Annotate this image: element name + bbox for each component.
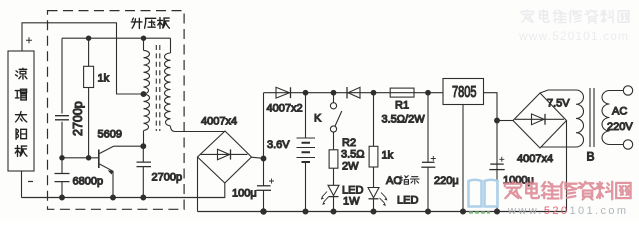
- svg-text:www.520101.com: www.520101.com: [518, 29, 629, 43]
- resistor R1 body: [390, 88, 414, 97]
- node 220u top dot: [426, 90, 431, 95]
- capacitor C4 100u plates: [257, 185, 271, 187]
- wire bridge2 right corner to ground: [566, 121, 568, 212]
- wire base: [62, 157, 99, 159]
- svg-text:4007x2: 4007x2: [267, 103, 303, 115]
- plus terminal label: [26, 37, 32, 43]
- node switch top dot: [331, 90, 336, 95]
- switch K: [333, 93, 335, 103]
- AC terminal top circle: [623, 86, 632, 95]
- svg-text:3.6V: 3.6V: [267, 139, 290, 151]
- svg-text:LED: LED: [342, 184, 363, 196]
- transformer T1 secondary winding: [164, 38, 225, 131]
- svg-text:5609: 5609: [98, 129, 122, 141]
- LED1 lamp: [328, 185, 339, 195]
- resistor R2 body: [329, 150, 338, 168]
- svg-text:3.5Ω/2W: 3.5Ω/2W: [382, 114, 426, 126]
- svg-text:R1: R1: [395, 100, 409, 112]
- wire bridge right corner to 100u node: [252, 157, 264, 158]
- node collector junction dot: [141, 144, 146, 149]
- node base junction dot: [60, 156, 64, 160]
- bridge D1 internal diode: [201, 153, 248, 155]
- svg-text:2700p: 2700p: [152, 172, 183, 184]
- capacitor C2 6800p plates: [55, 174, 70, 182]
- wire bridge bottom corner to boost rail: [224, 183, 226, 198]
- regulator U1 7805 box: [443, 79, 484, 105]
- transformer T1 primary upper winding: [144, 38, 150, 94]
- node 100u bottom dot: [261, 209, 266, 214]
- resistor R3 1k body: [373, 93, 375, 147]
- svg-text:1k: 1k: [382, 150, 394, 162]
- wire panel plus to boost top: [22, 23, 144, 94]
- capacitor C4 plus sign: [269, 179, 274, 184]
- wire panel minus to boost rail: [21, 171, 23, 197]
- boost board label 升压板: [131, 18, 169, 29]
- LED2 emission arrows: [380, 193, 387, 204]
- svg-text:2700p: 2700p: [71, 101, 85, 136]
- minus terminal label: [28, 181, 33, 183]
- capacitor C1 2700p plates: [55, 116, 69, 120]
- dashed boost board border: [48, 11, 185, 210]
- svg-text:LED: LED: [397, 195, 418, 207]
- AC terminal bottom circle: [623, 140, 632, 149]
- node winding top dot: [141, 36, 145, 40]
- wire to bridge2 left corner: [497, 120, 513, 122]
- transformer T1 core dashed lines: [156, 45, 160, 131]
- collector wire: [114, 145, 144, 147]
- diode D3 (charge path, pointing left): [346, 87, 348, 98]
- LED1 emission arrows: [322, 192, 329, 203]
- svg-text:1k: 1k: [98, 73, 110, 85]
- wire dc riser: [263, 93, 265, 212]
- transformer T1 primary lower winding: [144, 94, 150, 146]
- wire base node down: [61, 158, 63, 198]
- bottom-right watermark book icon: [469, 180, 498, 207]
- node 1k-base junction dot: [86, 156, 90, 160]
- svg-text:R2: R2: [342, 137, 356, 149]
- top dc rail: [264, 92, 444, 94]
- transformer T2 secondary: [540, 90, 584, 147]
- transformer T2 core: [590, 88, 594, 147]
- bottom-right watermark text 家电维修资料网: [505, 181, 631, 199]
- main ground rail: [198, 211, 567, 213]
- svg-text:7805: 7805: [452, 84, 477, 101]
- svg-text:220V: 220V: [607, 121, 633, 133]
- svg-text:3.5Ω: 3.5Ω: [341, 149, 365, 161]
- node C3 bottom dot: [141, 195, 146, 200]
- svg-text:220μ: 220μ: [434, 175, 459, 187]
- node C2 bottom dot: [60, 195, 65, 200]
- svg-text:4007x4: 4007x4: [201, 116, 237, 128]
- faint top-right watermark: [521, 10, 629, 24]
- regulator ground pin wire: [462, 105, 464, 212]
- bridge rectifier D1 4007x4 diamond: [198, 131, 252, 183]
- svg-text:4007x4: 4007x4: [517, 153, 553, 165]
- battery BT1 3.6V: [303, 90, 308, 95]
- wire 7805 input: [484, 93, 498, 212]
- solar panel box: [8, 51, 34, 171]
- transformer T2 primary: [602, 91, 623, 145]
- transistor Q1 5609: [98, 150, 100, 169]
- svg-text:6800p: 6800p: [73, 176, 104, 188]
- node emitter bottom dot: [111, 195, 116, 200]
- wire bridge left corner to main ground rail: [197, 157, 199, 212]
- boost inner top rail: [62, 37, 171, 39]
- capacitor C6 1000u: [490, 163, 503, 165]
- capacitor C5 220u: [427, 93, 429, 212]
- node 1k2 top dot: [371, 90, 376, 95]
- boost bottom rail: [22, 197, 226, 199]
- solar panel label 凉帽太阳板: [15, 68, 27, 156]
- resistor R 1k body: [88, 38, 90, 158]
- svg-text:100μ: 100μ: [232, 188, 257, 200]
- green marks on rail: [469, 211, 490, 213]
- svg-text:1W: 1W: [343, 196, 360, 208]
- svg-text:2W: 2W: [342, 160, 359, 172]
- svg-text:K: K: [314, 113, 322, 125]
- svg-text:AC: AC: [612, 106, 627, 118]
- diode D2 4007x2: [276, 87, 290, 98]
- svg-text:B: B: [587, 150, 595, 164]
- node center tap dot: [141, 92, 146, 97]
- node 100u top dot: [261, 156, 266, 161]
- capacitor C3 2700p plates: [137, 162, 152, 167]
- node bridge2 dc plus dot: [495, 118, 500, 123]
- LED2 AC indicator: [368, 188, 379, 198]
- svg-text:AC: AC: [386, 175, 401, 187]
- node 1k top dot: [86, 36, 90, 40]
- svg-text:www.520101.com: www.520101.com: [507, 205, 628, 217]
- wire left branch vertical: [61, 38, 63, 158]
- bridge rectifier D4 4007x4 diamond: [513, 93, 567, 148]
- svg-text:7.5V: 7.5V: [547, 98, 570, 110]
